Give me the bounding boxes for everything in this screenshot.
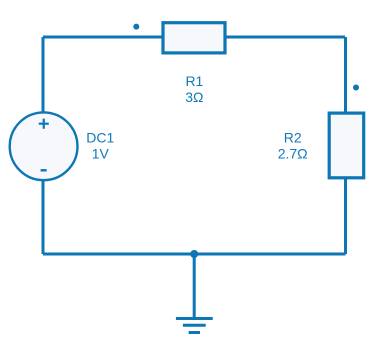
svg-text:DC1: DC1 — [86, 130, 114, 146]
svg-text:2.7Ω: 2.7Ω — [278, 146, 308, 162]
wire top: node A to R1 to node B — [43, 36, 345, 39]
resistor R2 body — [329, 113, 364, 178]
ground bar 2 — [183, 324, 206, 327]
resistor R1 body — [163, 23, 225, 53]
svg-text:1V: 1V — [92, 146, 110, 162]
ground bar 1 — [176, 317, 213, 320]
node dot above wire near R1 — [133, 24, 139, 30]
wire ground stem — [193, 254, 196, 319]
svg-text:3Ω: 3Ω — [185, 89, 203, 105]
plus symbol of DC1 — [39, 119, 49, 129]
ground bar 3 — [189, 331, 200, 334]
svg-text:R2: R2 — [284, 130, 302, 146]
wire bottom — [43, 253, 346, 256]
voltage source DC1 circle — [10, 112, 78, 180]
wire right: node B down to bottom-right corner — [344, 37, 347, 254]
node dot (junction) on bottom wire — [190, 250, 198, 258]
minus symbol of DC1 — [41, 169, 47, 171]
svg-text:R1: R1 — [185, 73, 203, 89]
wire left: node A down to bottom-left corner — [42, 37, 45, 254]
node dot right of wire near R2 — [353, 85, 359, 91]
